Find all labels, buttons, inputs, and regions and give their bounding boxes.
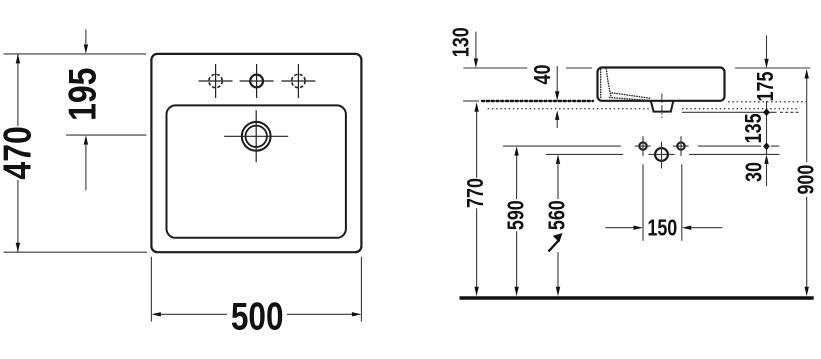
centre hole bbox=[655, 148, 668, 161]
svg-text:900: 900 bbox=[793, 165, 819, 195]
dim 470 extension lines bbox=[4, 54, 148, 252]
dim 40 bbox=[556, 66, 558, 128]
dim 900 bbox=[806, 79, 808, 288]
svg-text:770: 770 bbox=[463, 178, 489, 208]
chain dim 175/135/30 bbox=[766, 36, 768, 155]
rim-top extension line bbox=[463, 67, 810, 69]
centre-hole line bbox=[546, 153, 780, 155]
drain trapezoid bbox=[651, 101, 674, 112]
svg-text:195: 195 bbox=[61, 68, 105, 121]
fixing hole left bbox=[639, 142, 646, 149]
dim 150 bbox=[605, 227, 722, 229]
svg-text:40: 40 bbox=[530, 65, 556, 85]
dim 195 bbox=[85, 30, 87, 191]
dim 500 bbox=[151, 257, 361, 322]
tap hole centre (solid) bbox=[240, 64, 274, 98]
svg-text:150: 150 bbox=[647, 216, 677, 242]
tap hole left (dashed) bbox=[199, 64, 233, 98]
floor line bbox=[460, 296, 814, 300]
drain centreline bbox=[661, 94, 663, 119]
fixing-holes line bbox=[503, 145, 779, 147]
dim 130 bbox=[475, 32, 477, 59]
drain (plan) bbox=[224, 110, 288, 162]
svg-text:500: 500 bbox=[231, 295, 284, 339]
drain-bottom extension line bbox=[682, 111, 777, 113]
svg-text:135: 135 bbox=[741, 113, 767, 143]
dim 470 line bbox=[17, 54, 19, 252]
adjustable arrow (NE) bbox=[549, 233, 563, 252]
svg-text:590: 590 bbox=[503, 200, 529, 230]
basin profile bbox=[598, 68, 725, 101]
tap hole right (dashed) bbox=[281, 64, 315, 98]
svg-text:470: 470 bbox=[0, 126, 39, 179]
dim 560 bbox=[557, 164, 559, 287]
svg-text:130: 130 bbox=[449, 27, 475, 57]
basin outer rim (plan) bbox=[151, 54, 361, 252]
dim 150 extension lines bbox=[643, 164, 682, 241]
dim 590 bbox=[516, 156, 518, 287]
basin inner bowl (plan) bbox=[167, 105, 346, 237]
svg-text:560: 560 bbox=[544, 200, 570, 230]
dim 770 bbox=[476, 112, 478, 287]
basin interior (dotted) bbox=[601, 69, 651, 101]
svg-text:175: 175 bbox=[753, 72, 779, 102]
svg-text:30: 30 bbox=[742, 162, 768, 182]
countertop bottom dotted bbox=[488, 108, 798, 110]
countertop top line bbox=[463, 100, 479, 102]
fixing hole right bbox=[677, 142, 684, 149]
